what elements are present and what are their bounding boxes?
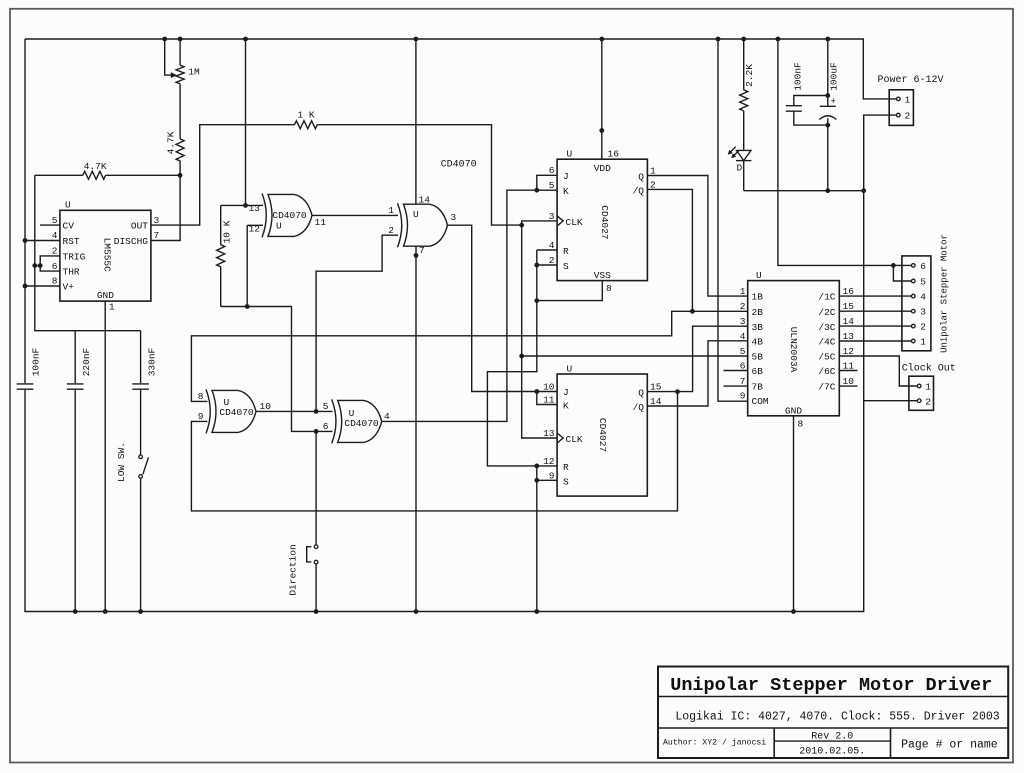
resistor R 1K — [295, 121, 318, 129]
wire 7B stub — [724, 385, 748, 387]
junction dot pin13 — [243, 203, 248, 208]
wire FF1 R pin 4 stub — [537, 249, 557, 251]
svg-text:10: 10 — [543, 381, 555, 392]
wire GND pin 7 of CD4070 to ground bus — [415, 246, 417, 612]
wire V+ pin 8 — [25, 285, 60, 287]
svg-text:1: 1 — [388, 205, 394, 216]
svg-text:U: U — [65, 200, 71, 211]
wire /5C to Clock Out pin 1 — [839, 356, 917, 386]
wire 10K bottom rail to XOR D pin 6 — [221, 307, 333, 432]
svg-text:5: 5 — [323, 401, 329, 412]
junction dot RST — [23, 238, 28, 243]
wire FF1 VSS pin 8 — [537, 281, 603, 301]
svg-text:Q: Q — [638, 387, 644, 398]
svg-text:CD4070: CD4070 — [344, 418, 379, 429]
svg-text:8: 8 — [52, 276, 58, 287]
svg-text:1M: 1M — [188, 67, 200, 78]
svg-text:CV: CV — [63, 221, 75, 232]
switch LOW SW. — [140, 390, 142, 455]
svg-text:U: U — [567, 149, 573, 160]
CLK triangle FF2 — [557, 433, 563, 443]
wire /2C to motor pin 3 — [839, 310, 911, 312]
capacitor C 100nF (left bus) plates — [17, 383, 34, 385]
wire FF1 /Q pin 2 to ULN 2B — [647, 189, 747, 311]
op-amp U2C XOR gate (8,9->10) — [206, 389, 256, 433]
junction dot 5B — [519, 354, 524, 359]
svg-text:4: 4 — [920, 292, 926, 303]
svg-text:7B: 7B — [752, 382, 764, 393]
wire /4C to motor pin 1 — [839, 340, 911, 342]
wire GND pin 1 of U1 to ground bus — [104, 301, 106, 611]
wire LED cathode rail to GND riser — [744, 190, 864, 192]
svg-text:12: 12 — [543, 456, 555, 467]
wire left V+ bus upper — [24, 39, 26, 383]
wire CLK net branch to ULN 5B — [522, 355, 748, 357]
svg-text:THR: THR — [63, 267, 80, 278]
svg-text:7: 7 — [154, 230, 160, 241]
svg-text:V+: V+ — [63, 282, 75, 293]
svg-text:3: 3 — [154, 215, 160, 226]
svg-text:/7C: /7C — [818, 382, 835, 393]
svg-text:U: U — [276, 221, 282, 232]
svg-text:2: 2 — [925, 396, 931, 407]
capacitor C 330nF — [140, 331, 142, 384]
wire top bus to XOR A pin 13 vertical — [245, 39, 247, 205]
resistor R 10K — [220, 205, 222, 244]
svg-text:6: 6 — [323, 421, 329, 432]
resistor R 4.7K horizontal — [35, 174, 83, 176]
wire FF1 J-K bracket — [537, 175, 557, 190]
svg-text:Direction: Direction — [288, 544, 299, 595]
svg-text:S: S — [563, 261, 569, 272]
svg-text:13: 13 — [249, 203, 261, 214]
junction dots ground bus — [73, 609, 78, 614]
svg-text:J: J — [563, 171, 569, 182]
svg-text:1B: 1B — [752, 292, 764, 303]
svg-text:GND: GND — [97, 290, 114, 301]
wire FF2 J-K bracket — [537, 392, 557, 405]
resistor R 4.7K vertical — [176, 139, 184, 161]
svg-text:4: 4 — [384, 411, 390, 422]
wire DISCHG pin7 — [151, 175, 180, 240]
wire FF1 Q pin 1 to ULN 1B — [647, 176, 747, 297]
wire FF1 K pin 5 net to XOR D output — [382, 190, 558, 421]
svg-text:/4C: /4C — [818, 336, 835, 347]
capacitor C 100uF branch — [827, 39, 829, 106]
switch Direction — [315, 431, 317, 545]
svg-text:S: S — [563, 476, 569, 487]
svg-text:13: 13 — [843, 331, 855, 342]
svg-text:10: 10 — [843, 376, 855, 387]
junction dot VDD line — [599, 128, 604, 133]
svg-text:CD4070: CD4070 — [219, 407, 254, 418]
title block outer box — [658, 667, 1008, 759]
svg-text:DISCHG: DISCHG — [114, 236, 149, 247]
flip-flop U4 CD4027 #2 box — [557, 374, 647, 496]
svg-text:CLK: CLK — [566, 434, 583, 445]
svg-text:2: 2 — [52, 246, 58, 257]
wire VDD pin 14 of CD4070 from top bus — [415, 39, 417, 205]
svg-text:12: 12 — [249, 223, 261, 234]
svg-text:2B: 2B — [752, 307, 764, 318]
junction dot 2B — [690, 309, 695, 314]
junction dot S2 — [534, 263, 539, 268]
wiper arrow of 1M — [165, 39, 173, 75]
junction dot VSS join — [534, 298, 539, 303]
svg-text:GND: GND — [785, 405, 802, 416]
wire bus tie to TRIG/THR — [35, 265, 40, 267]
svg-text:5: 5 — [740, 346, 746, 357]
junction dot K5 — [534, 188, 539, 193]
LED arrows — [733, 150, 739, 156]
wire CLK net down to FF2 CLK pin 13 — [522, 225, 557, 438]
resistor R 2.2K from top bus — [743, 39, 745, 90]
op-amp U2A XOR gate CD4070 (13,12->11) — [262, 193, 312, 237]
junction dot pin7 — [414, 253, 419, 258]
svg-text:CD4070: CD4070 — [441, 160, 477, 171]
CLK triangle FF1 — [557, 216, 563, 226]
junction dot 10K bottom — [245, 304, 250, 309]
svg-text:LOW SW.: LOW SW. — [116, 442, 127, 482]
svg-text:13: 13 — [543, 428, 555, 439]
svg-text:5: 5 — [549, 180, 555, 191]
junction dot V+ — [23, 284, 28, 289]
svg-text:6: 6 — [52, 261, 58, 272]
svg-text:COM: COM — [752, 396, 769, 407]
svg-text:16: 16 — [608, 149, 620, 160]
svg-text:6B: 6B — [752, 366, 764, 377]
svg-text:100nF: 100nF — [793, 62, 804, 91]
svg-text:CLK: CLK — [566, 217, 583, 228]
svg-text:Clock Out: Clock Out — [902, 362, 956, 374]
wire motor pin 5 tie — [893, 265, 911, 281]
svg-text:R: R — [563, 246, 569, 257]
wire /6C stub — [839, 370, 857, 372]
junction dot XOR D pin5 — [314, 409, 319, 414]
wire ULN GND pin 8 to ground bus — [793, 416, 795, 612]
wire XOR C out to XOR D pin 5 — [256, 410, 333, 412]
flip-flop U3 CD4027 #1 box — [557, 159, 647, 280]
connector Power 6-12V box — [889, 90, 913, 126]
svg-text:/5C: /5C — [818, 352, 835, 363]
svg-text:Unipolar Stepper Motor: Unipolar Stepper Motor — [940, 234, 950, 353]
wire OUT pin3 to 1K to CLK junction — [151, 125, 295, 225]
svg-text:U: U — [567, 363, 573, 374]
svg-text:8: 8 — [606, 283, 612, 294]
svg-text:/1C: /1C — [818, 292, 835, 303]
wire XOR B out pin3 to FF2 J pin 10 — [447, 225, 557, 391]
svg-text:6: 6 — [920, 261, 926, 272]
svg-text:4B: 4B — [752, 336, 764, 347]
svg-text:6: 6 — [549, 165, 555, 176]
svg-text:11: 11 — [543, 395, 555, 406]
svg-text:1: 1 — [905, 94, 911, 105]
svg-text:5B: 5B — [752, 352, 764, 363]
svg-text:4: 4 — [52, 230, 58, 241]
wire CV stub pin 5 — [40, 224, 60, 226]
wire CLK3 entry — [522, 221, 557, 225]
op-amp U2B XOR gate (1,2->3) — [398, 203, 448, 247]
svg-text:220nF: 220nF — [81, 347, 92, 376]
junction dot Q15 — [675, 389, 680, 394]
svg-text:+: + — [831, 97, 836, 107]
svg-text:11: 11 — [315, 217, 327, 228]
svg-text:4.7K: 4.7K — [166, 131, 177, 154]
svg-text:U: U — [756, 270, 762, 281]
svg-text:2: 2 — [905, 111, 911, 122]
svg-text:RST: RST — [63, 236, 80, 247]
svg-text:VSS: VSS — [594, 270, 611, 281]
wire Clock Out pin 2 tap — [864, 400, 918, 402]
svg-text:5: 5 — [52, 215, 58, 226]
svg-text:/Q: /Q — [633, 402, 645, 413]
junction dot FF2 J10 — [534, 389, 539, 394]
wire V+ top bus — [25, 39, 897, 99]
title block row lines — [658, 696, 1008, 698]
svg-text:Power 6-12V: Power 6-12V — [877, 75, 943, 86]
wire RST pin 4 — [25, 240, 60, 242]
connector Unipolar Stepper Motor box — [902, 256, 931, 351]
op-amp U2D XOR gate (5,6->4) — [332, 399, 382, 443]
svg-text:/2C: /2C — [818, 307, 835, 318]
svg-text:ULN2003A: ULN2003A — [788, 327, 799, 373]
svg-text:9: 9 — [740, 391, 746, 402]
junction dot FF2 S9 — [534, 478, 539, 483]
svg-text:5: 5 — [920, 277, 926, 288]
svg-text:14: 14 — [419, 194, 431, 205]
svg-text:OUT: OUT — [131, 221, 148, 232]
svg-text:K: K — [563, 401, 569, 412]
svg-text:2: 2 — [388, 225, 394, 236]
svg-text:4.7K: 4.7K — [84, 161, 107, 172]
wire pin 12 input — [247, 224, 263, 226]
capacitor C 100uF plates — [820, 105, 836, 107]
wire FF2 /Q pin 14 to ULN 4B — [647, 341, 747, 406]
wire /Q2 feedback to XOR C pin 8 — [191, 311, 692, 401]
svg-text:U: U — [413, 209, 419, 220]
wire second bus with 220nF/330nF rail — [35, 175, 141, 330]
svg-text:/6C: /6C — [818, 366, 835, 377]
svg-text:Unipolar Stepper Motor Driver: Unipolar Stepper Motor Driver — [670, 675, 992, 696]
capacitor C 220nF — [74, 331, 76, 384]
svg-text:330nF: 330nF — [147, 347, 158, 376]
svg-text:Logikai IC: 4027, 4070. Clock:: Logikai IC: 4027, 4070. Clock: 555. Driv… — [675, 711, 999, 724]
wire /3C to motor pin 2 — [839, 325, 911, 327]
wire FF1 R-S bracket down to FF2 R pin 12 — [537, 250, 557, 265]
svg-text:10 K: 10 K — [222, 220, 233, 243]
svg-text:7: 7 — [419, 245, 425, 256]
svg-text:3: 3 — [740, 316, 746, 327]
svg-text:1: 1 — [109, 302, 115, 313]
wire pin 13 input — [221, 204, 263, 206]
connector Clock Out box — [909, 376, 934, 410]
junction dots 100uF branch — [825, 93, 830, 98]
op-amp U1 LM555C timer box — [60, 210, 151, 301]
wire top bus to motor pins 6/5 — [778, 39, 912, 265]
junction dots top bus — [162, 37, 167, 42]
wire FF2 R-S bracket to ground — [537, 466, 557, 480]
svg-text:CD4027: CD4027 — [599, 205, 610, 239]
wire XOR B pin 2 from Direction net — [316, 235, 398, 411]
svg-text:2: 2 — [549, 255, 555, 266]
wire COM pin 9 from top bus — [718, 39, 748, 401]
svg-text:1: 1 — [925, 382, 931, 393]
svg-text:2.2K: 2.2K — [744, 64, 755, 87]
svg-text:R: R — [563, 462, 569, 473]
wire 6B stub — [724, 370, 748, 372]
svg-text:15: 15 — [650, 382, 662, 393]
svg-text:/3C: /3C — [818, 322, 835, 333]
wire /1C to motor pin 4 — [839, 295, 911, 297]
svg-text:2: 2 — [740, 301, 746, 312]
svg-text:1 K: 1 K — [297, 110, 314, 121]
svg-text:3: 3 — [549, 211, 555, 222]
junction dot CLK3 — [519, 223, 524, 228]
svg-text:K: K — [563, 186, 569, 197]
capacitor C 100nF (power) — [794, 96, 828, 106]
wire XOR A out to XOR B pin 1 — [312, 214, 398, 216]
svg-text:LM555C: LM555C — [101, 238, 112, 273]
svg-text:100nF: 100nF — [30, 347, 41, 376]
wire TRIG-THR bracket — [40, 256, 60, 271]
svg-text:9: 9 — [549, 470, 555, 481]
svg-text:CD4070: CD4070 — [272, 210, 307, 221]
diode LED D — [737, 150, 752, 160]
svg-text:8: 8 — [798, 419, 804, 430]
svg-text:3B: 3B — [752, 322, 764, 333]
driver U5 ULN2003A box — [748, 281, 840, 416]
svg-text:/Q: /Q — [633, 185, 645, 196]
svg-text:4: 4 — [549, 240, 555, 251]
junction dot XOR D pin6 — [314, 429, 319, 434]
svg-text:3: 3 — [451, 212, 457, 223]
svg-text:1: 1 — [920, 337, 926, 348]
wire FF1 VDD pin 16 from top bus — [601, 39, 603, 159]
svg-text:7: 7 — [740, 376, 746, 387]
svg-text:2: 2 — [920, 322, 926, 333]
svg-text:8: 8 — [198, 391, 204, 402]
svg-text:CD4027: CD4027 — [597, 418, 608, 452]
svg-text:1: 1 — [740, 286, 746, 297]
svg-text:4: 4 — [740, 331, 746, 342]
junction dots TRIG/THR — [32, 263, 37, 268]
junction dot FF2 R12 — [534, 464, 539, 469]
wire pin 12 drop — [246, 225, 248, 306]
svg-text:100uF: 100uF — [829, 62, 840, 91]
wire XOR C pin 9 from Q15 feedback — [191, 392, 677, 511]
svg-text:9: 9 — [198, 411, 204, 422]
svg-text:Q: Q — [638, 171, 644, 182]
svg-text:VDD: VDD — [594, 163, 611, 174]
svg-text:D: D — [737, 163, 743, 174]
junction dot 4.7K/DISCHG — [178, 173, 183, 178]
potentiometer R 1M branch — [179, 39, 181, 65]
svg-text:3: 3 — [920, 307, 926, 318]
svg-text:TRIG: TRIG — [63, 251, 86, 262]
svg-text:Page # or name: Page # or name — [901, 739, 998, 752]
svg-text:Author: XY2 / janocsi: Author: XY2 / janocsi — [663, 738, 766, 748]
wire FF2 Q pin 15 to ULN 3B — [647, 326, 747, 391]
svg-text:16: 16 — [843, 286, 855, 297]
svg-text:2010.02.05.: 2010.02.05. — [799, 746, 865, 757]
wire /7C stub — [839, 385, 857, 387]
svg-text:6: 6 — [740, 361, 746, 372]
svg-text:10: 10 — [260, 401, 272, 412]
junction dot motor 6/5 — [891, 263, 896, 268]
wire left bus lower to ground bus to power pin 2 riser — [25, 115, 897, 611]
svg-text:Rev 2.0: Rev 2.0 — [811, 732, 853, 743]
svg-text:J: J — [563, 387, 569, 398]
